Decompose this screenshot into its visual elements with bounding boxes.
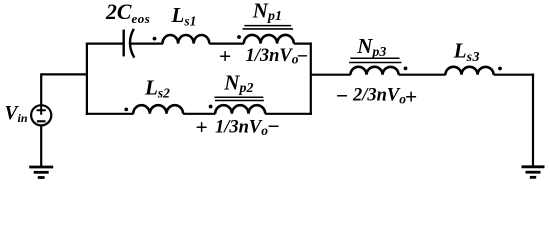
wire: capacitor to Ls1 [131,42,163,44]
dot: Np1 polarity [237,35,241,39]
wire: Ls1 to Np1 [209,42,244,44]
svg-text:+: + [196,115,208,139]
wire: right vertical down to ground [532,74,534,167]
label -2/3nVo+ [336,84,417,109]
dot: Np3 polarity [404,67,408,71]
svg-text:2/3nVo: 2/3nVo [352,86,406,107]
wire: junction vertical (right branch node) [310,43,312,115]
winding Np2 core bars [214,97,264,100]
source V1 (Vin) circle with plus minus [31,105,51,125]
svg-text:+: + [219,44,231,68]
wire: bottom branch from split to Ls2 [86,113,134,115]
svg-text:1/3nVo: 1/3nVo [246,46,299,67]
inductor Ls3 [445,67,493,75]
winding Np2 coil [215,105,265,114]
wire: middle output from junction to Np3 [311,74,351,76]
ground right [522,167,545,178]
capacitor C1 (2Ceos) [124,29,135,58]
wire: Np1 to junction [294,42,312,44]
inductor Ls1 [163,35,210,44]
dot: Ls3 polarity [498,67,502,71]
wire: Ls2 to Np2 [183,113,215,115]
wire: left vertical below source [40,126,42,167]
svg-text:1/3nVo: 1/3nVo [215,117,268,138]
wire: middle left horizontal from source to split node [41,73,88,75]
wire: Ls3 to right corner [494,74,534,76]
ground left [29,167,53,178]
svg-text:−: − [336,84,348,108]
svg-text:−: − [297,45,308,67]
wire: split vertical (left branch node) [86,43,88,115]
winding Np3 coil [350,67,398,75]
dot: Ls2 polarity [124,108,128,112]
wire: Np2 to junction [265,113,312,115]
winding Np1 coil [244,35,294,44]
label +1/3nVo- bottom [196,115,280,140]
winding Np1 core bars [243,26,293,29]
wire: top branch from split to capacitor [86,42,124,44]
dot: Ls1 polarity [153,37,157,41]
wire: Np3 to Ls3 [399,74,446,76]
dot: Np2 polarity [209,105,213,109]
label +1/3nVo- top [219,44,308,68]
svg-text:+: + [405,84,417,108]
winding Np3 core bars [349,58,401,62]
inductor Ls2 [133,105,183,114]
wire: left vertical above source [40,73,42,104]
svg-text:−: − [268,115,280,139]
